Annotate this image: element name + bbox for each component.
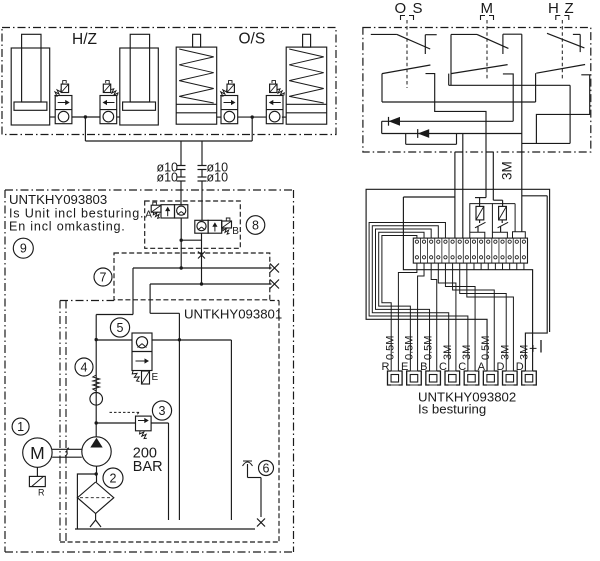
svg-text:3M: 3M (461, 345, 473, 360)
svg-text:E: E (401, 361, 408, 373)
svg-text:C: C (439, 361, 447, 373)
svg-text:1: 1 (17, 420, 24, 434)
svg-text:5: 5 (117, 321, 124, 335)
svg-text:3M: 3M (442, 345, 454, 360)
svg-text:O: O (395, 0, 407, 17)
svg-text:D: D (497, 361, 505, 373)
svg-text:Is besturing: Is besturing (418, 402, 486, 417)
svg-text:R: R (382, 361, 390, 373)
svg-text:UNTKHY093803: UNTKHY093803 (9, 192, 107, 207)
svg-text:D: D (516, 361, 524, 373)
svg-text:8: 8 (252, 218, 259, 232)
svg-text:B: B (420, 361, 427, 373)
svg-text:B: B (232, 226, 239, 237)
svg-text:UNTKHY093801: UNTKHY093801 (184, 307, 282, 322)
svg-text:0.5M: 0.5M (403, 336, 415, 360)
svg-text:0.5M: 0.5M (480, 336, 492, 360)
svg-text:C: C (458, 361, 466, 373)
svg-text:0.5M: 0.5M (384, 336, 396, 360)
svg-text:ø10: ø10 (207, 171, 229, 185)
svg-text:M: M (30, 443, 45, 463)
svg-text:H/Z: H/Z (72, 31, 97, 48)
svg-text:0.5M: 0.5M (423, 336, 435, 360)
svg-text:E: E (152, 372, 159, 383)
svg-text:2: 2 (110, 471, 117, 485)
svg-text:6: 6 (263, 461, 270, 475)
svg-text:Is Unit incl besturing.: Is Unit incl besturing. (9, 207, 144, 221)
svg-text:R: R (38, 488, 45, 498)
svg-text:A: A (145, 210, 152, 221)
svg-text:BAR: BAR (133, 459, 163, 475)
svg-text:9: 9 (20, 242, 27, 256)
svg-text:3: 3 (159, 404, 166, 418)
svg-text:H: H (548, 0, 559, 17)
svg-text:ø10: ø10 (156, 171, 178, 185)
svg-text:7: 7 (100, 270, 107, 284)
svg-text:O/S: O/S (239, 31, 266, 48)
svg-text:En incl omkasting.: En incl omkasting. (9, 220, 126, 234)
svg-text:A: A (478, 361, 486, 373)
svg-text:Z: Z (565, 0, 574, 17)
svg-text:M: M (481, 0, 494, 17)
svg-text:3M: 3M (518, 345, 530, 360)
svg-text:4: 4 (81, 360, 88, 374)
svg-text:3M: 3M (499, 345, 511, 360)
svg-text:S: S (413, 0, 423, 17)
svg-text:3M: 3M (500, 161, 515, 180)
